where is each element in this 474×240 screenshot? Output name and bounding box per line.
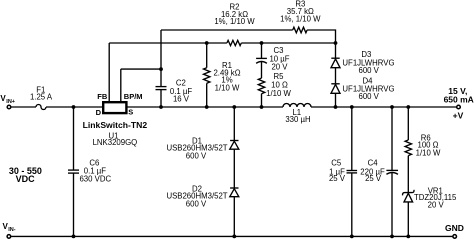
- wire C4 column upper: [391, 107, 393, 170]
- wire VR1 to bottom rail: [407, 202, 409, 237]
- wire bottom return rail: [11, 235, 452, 237]
- label C5 value: [329, 159, 346, 183]
- wire C3 column upper: [261, 43, 263, 58]
- label input voltage 30-550 VDC: [9, 166, 42, 184]
- svg-text:BP/M: BP/M: [124, 92, 143, 101]
- wire C2 bottom: [160, 90, 162, 107]
- label R3 value: [280, 0, 321, 23]
- op-amp U1 LinkSwitch-TN2 IC box: [103, 102, 126, 113]
- svg-text:LNK3209GQ: LNK3209GQ: [93, 138, 138, 147]
- pin BP/M label: [124, 92, 143, 101]
- label C4 value: [360, 159, 385, 183]
- diode D4: [331, 83, 339, 85]
- label L1 value: [285, 108, 310, 124]
- wire VIN+ to fuse: [11, 106, 36, 108]
- wire D3 column top: [335, 43, 337, 58]
- capacitor C3 polarized: [256, 57, 267, 59]
- label C2 value: [170, 79, 192, 104]
- svg-text:1%, 1/10 W: 1%, 1/10 W: [214, 17, 255, 26]
- pin D label: [96, 108, 102, 117]
- wire L1 to +V terminal: [311, 106, 456, 108]
- wire BP/M pin vertical: [120, 69, 122, 102]
- wire R6 to VR1: [407, 156, 409, 193]
- label VR1 value: [414, 187, 457, 210]
- svg-text:IN-: IN-: [8, 227, 16, 233]
- wire D1 to D2: [233, 149, 235, 187]
- node VIN+ label: [0, 94, 15, 105]
- wire D2 to bottom rail: [233, 197, 235, 237]
- svg-text:600 V: 600 V: [186, 199, 207, 208]
- junction D2 bottom: [232, 235, 236, 239]
- wire C4 lower: [391, 173, 393, 237]
- junction C3 top: [260, 41, 264, 45]
- wire R3 to D3 column corner: [307, 30, 335, 43]
- svg-text:20 V: 20 V: [428, 201, 445, 210]
- svg-text:S: S: [128, 107, 133, 116]
- svg-text:1/10 W: 1/10 W: [416, 148, 441, 157]
- resistor R6: [405, 140, 411, 156]
- zener diode VR1: [403, 190, 415, 196]
- wire R1 column upper: [206, 43, 208, 68]
- wire R5 column lower: [261, 94, 263, 107]
- svg-text:1%, 1/10 W: 1%, 1/10 W: [280, 14, 321, 23]
- svg-text:D: D: [96, 108, 102, 117]
- label C6 value: [79, 158, 111, 183]
- terminal VIN+: [7, 105, 11, 109]
- junction C6 bottom: [72, 235, 76, 239]
- wire fuse to IC drain: [46, 106, 102, 108]
- svg-text:650 mA: 650 mA: [444, 94, 474, 104]
- terminal VIN-: [7, 235, 11, 239]
- label D4 value: [342, 76, 394, 101]
- label R6 value: [416, 133, 441, 157]
- label R5 value: [266, 72, 291, 98]
- wire D1 column top: [233, 107, 235, 140]
- pin FB label: [97, 92, 108, 101]
- svg-text:C5: C5: [331, 159, 342, 168]
- inductor L1: [283, 104, 311, 107]
- svg-text:VDC: VDC: [16, 174, 36, 184]
- wire R6 column upper: [407, 107, 409, 140]
- junction R6 top: [406, 105, 410, 109]
- svg-text:25 V: 25 V: [329, 174, 346, 183]
- svg-text:25 V: 25 V: [365, 174, 382, 183]
- wire switch rail S pin to L1: [126, 106, 283, 108]
- svg-text:IN+: IN+: [6, 99, 15, 105]
- label output 15V 650mA: [444, 86, 474, 121]
- fuse F1: [36, 105, 46, 110]
- label R1 value: [213, 61, 240, 92]
- label D3 value: [342, 50, 394, 75]
- label D2 value: [166, 184, 227, 208]
- wire C6 column upper: [73, 107, 75, 170]
- label F1 value: [30, 85, 53, 101]
- junction C6 tap: [72, 105, 76, 109]
- svg-text:C4: C4: [368, 159, 379, 168]
- wire C5 lower: [351, 173, 353, 237]
- junction D1 column top: [232, 105, 236, 109]
- wire D4 to output rail: [335, 93, 337, 107]
- capacitor C4 polarized: [386, 169, 398, 171]
- wire C2 column upper: [160, 30, 162, 87]
- junction R1 top: [205, 41, 209, 45]
- junction C4 bottom: [390, 235, 394, 239]
- junction C4 top: [390, 105, 394, 109]
- junction C2 bottom: [159, 105, 163, 109]
- wire FB pin vertical: [108, 43, 110, 102]
- svg-text:1/10 W: 1/10 W: [215, 84, 240, 93]
- resistor R5: [258, 78, 264, 94]
- resistor R3: [293, 27, 307, 33]
- wire C5 column upper: [351, 107, 353, 171]
- svg-text:1.25 A: 1.25 A: [30, 92, 53, 101]
- junction BP/M-C2 node: [159, 67, 163, 71]
- capacitor C2: [156, 86, 167, 88]
- svg-text:GND: GND: [445, 223, 464, 233]
- node GND label: [445, 223, 464, 233]
- diode D2: [230, 187, 238, 189]
- svg-text:+V: +V: [453, 111, 464, 121]
- svg-text:FB: FB: [97, 92, 108, 101]
- terminal +V output: [457, 105, 461, 109]
- svg-text:1/10 W: 1/10 W: [266, 89, 291, 98]
- wire top line from C2 column: [161, 29, 293, 31]
- junction D3 top node: [334, 41, 338, 45]
- resistor R2: [227, 40, 241, 45]
- pin S label: [128, 107, 133, 116]
- diode D1: [230, 140, 238, 142]
- terminal GND: [453, 235, 457, 239]
- label U1 LinkSwitch-TN2: [83, 120, 148, 147]
- label D1 value: [166, 137, 227, 161]
- label C3 value: [269, 46, 289, 72]
- wire R1 column lower: [206, 83, 208, 107]
- label R2 value: [214, 2, 255, 26]
- wire R2 to C3 node: [241, 42, 335, 44]
- svg-text:600 V: 600 V: [359, 66, 380, 75]
- svg-text:20 V: 20 V: [271, 63, 288, 72]
- capacitor C6: [68, 169, 79, 171]
- svg-text:600 V: 600 V: [359, 92, 380, 101]
- junction VR1 bottom: [406, 235, 410, 239]
- junction R1 bottom: [205, 105, 209, 109]
- capacitor C5: [347, 170, 358, 172]
- svg-text:16 V: 16 V: [173, 95, 190, 104]
- wire C3 to R5: [261, 62, 263, 78]
- wire C6 lower: [73, 173, 75, 236]
- junction C5 bottom: [350, 235, 354, 239]
- wire D3 to D4: [335, 68, 337, 84]
- svg-text:630 VDC: 630 VDC: [79, 175, 111, 184]
- junction D4 bottom node: [334, 105, 338, 109]
- node VIN- label: [3, 222, 16, 233]
- wire FB feedback line y43: [109, 42, 227, 44]
- svg-text:600 V: 600 V: [186, 151, 207, 160]
- svg-text:LinkSwitch-TN2: LinkSwitch-TN2: [83, 120, 148, 130]
- junction R5 bottom: [260, 105, 264, 109]
- wire BP/M horizontal to C2 node: [121, 68, 161, 70]
- resistor R1: [204, 68, 210, 84]
- diode D3: [331, 57, 339, 59]
- svg-text:330 µH: 330 µH: [285, 115, 310, 124]
- junction C5 top: [350, 105, 354, 109]
